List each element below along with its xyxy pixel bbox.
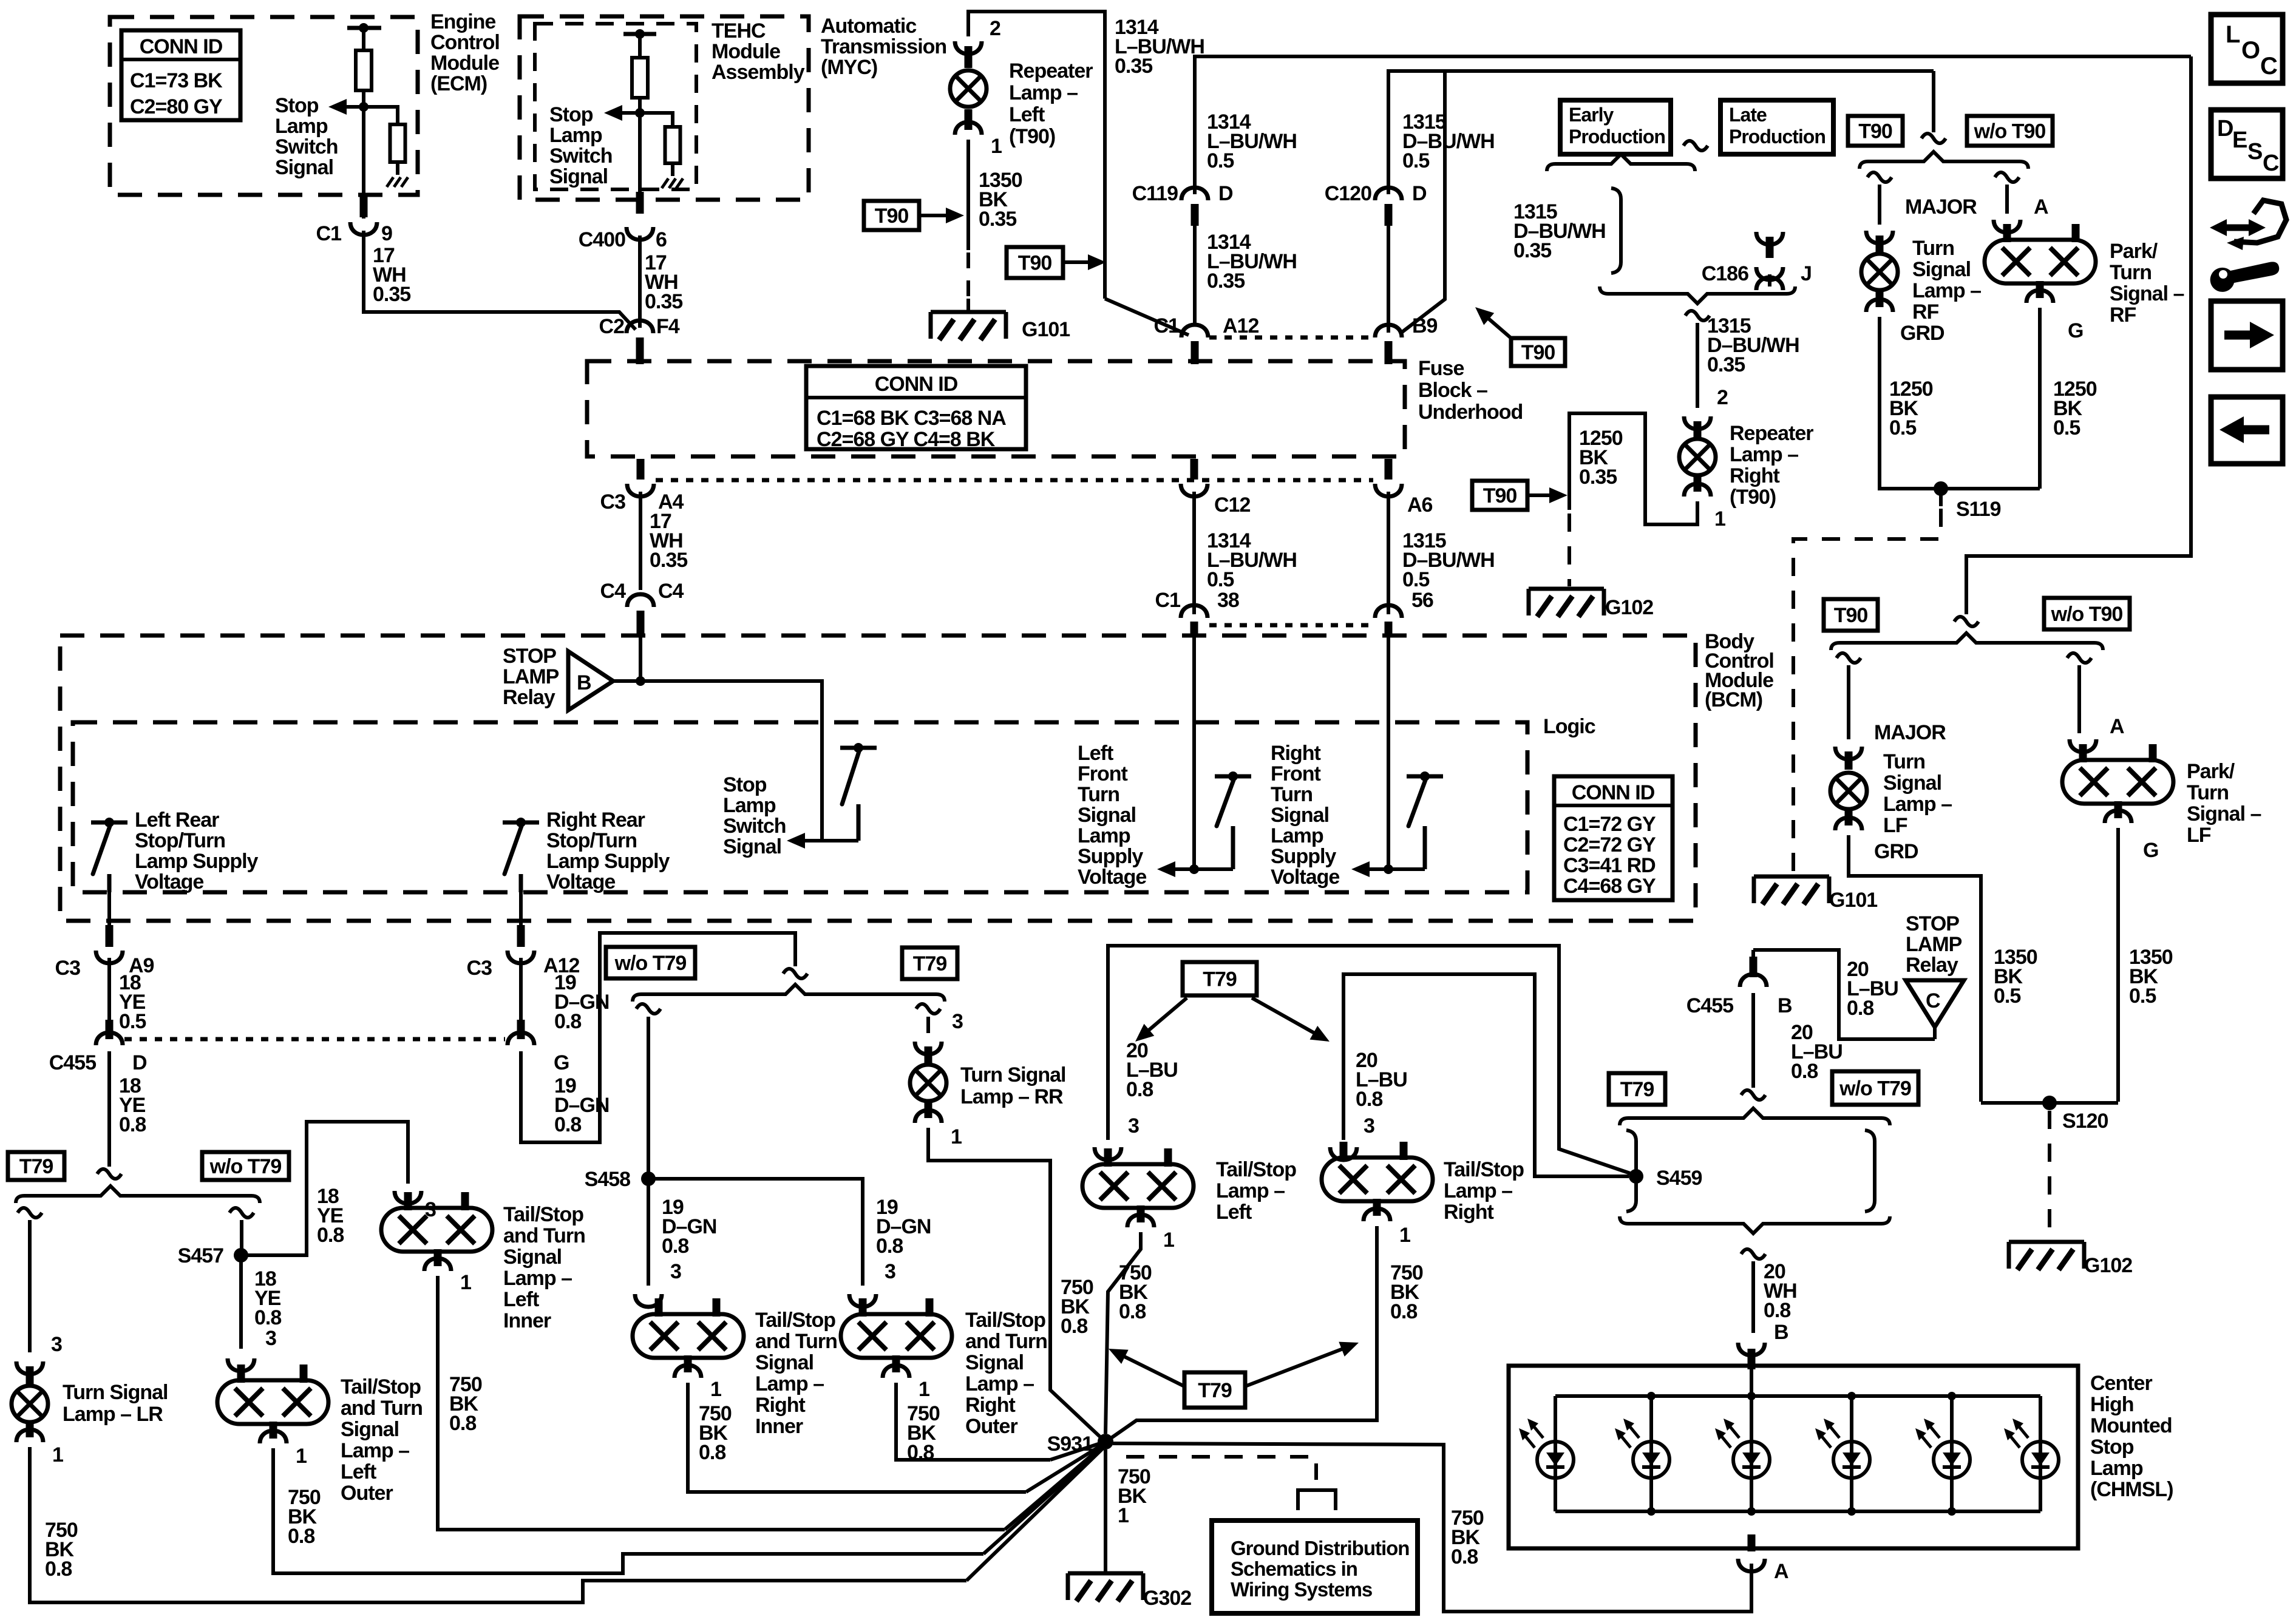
svg-text:C2=80 GY: C2=80 GY — [130, 95, 223, 118]
wire G to w/o T79 loop — [521, 933, 795, 1142]
svg-text:0.8: 0.8 — [1061, 1315, 1087, 1338]
label 18 YE 0.8 (left inner) — [317, 1185, 344, 1247]
svg-text:Lamp Supply: Lamp Supply — [546, 850, 670, 873]
connector arc MAJOR LF — [1835, 747, 1862, 759]
svg-text:Signal: Signal — [1912, 258, 1971, 281]
svg-text:Assembly: Assembly — [712, 61, 805, 84]
label 1 (LR) — [52, 1443, 63, 1466]
svg-text:Production: Production — [1569, 126, 1665, 147]
right arrow box — [2211, 301, 2283, 370]
squiggle w/o T79 loop end — [783, 969, 807, 978]
svg-text:Voltage: Voltage — [135, 870, 203, 893]
svg-text:0.5: 0.5 — [1889, 416, 1916, 439]
connector G stub — [517, 1020, 525, 1039]
squiggle right leg (RR lamp) — [916, 1004, 940, 1014]
svg-text:0.5: 0.5 — [119, 1010, 146, 1033]
svg-text:L: L — [2226, 21, 2240, 48]
wire resistor to node — [362, 90, 365, 219]
left arrow box — [2211, 397, 2283, 464]
svg-text:(T90): (T90) — [1009, 125, 1055, 148]
svg-text:Turn Signal: Turn Signal — [960, 1063, 1065, 1086]
svg-text:0.8: 0.8 — [699, 1441, 725, 1464]
hotlink double arrow icon — [2210, 200, 2286, 250]
svg-text:Switch: Switch — [275, 135, 338, 158]
svg-text:B: B — [1778, 994, 1792, 1017]
svg-text:Tail/Stop: Tail/Stop — [341, 1375, 421, 1398]
svg-text:Voltage: Voltage — [1271, 866, 1339, 889]
wire right front supply — [1387, 634, 1390, 869]
lamp Tail/Stop and Turn Signal Lamp - Left Inner — [381, 1192, 492, 1266]
label 3 (LR) — [51, 1333, 62, 1356]
connector pin 1 arc (repeater left) — [955, 122, 982, 135]
svg-text:Center: Center — [2090, 1372, 2152, 1395]
svg-text:56: 56 — [1411, 589, 1433, 612]
svg-text:T90: T90 — [1834, 604, 1868, 627]
svg-text:Signal: Signal — [1883, 771, 1941, 795]
T79 flag box (tail lamps) — [1183, 962, 1257, 995]
svg-text:Stop/Turn: Stop/Turn — [135, 829, 225, 852]
svg-text:F4: F4 — [656, 315, 680, 338]
dashed option segment — [966, 253, 970, 297]
svg-text:T90: T90 — [1858, 120, 1892, 143]
connector C1 pin 9 stub — [360, 195, 368, 217]
svg-text:Lamp –: Lamp – — [1444, 1179, 1512, 1202]
connector pin3 arc (RR) — [915, 1042, 942, 1054]
wire left rear drop — [107, 892, 111, 947]
svg-text:C1: C1 — [316, 222, 342, 245]
label C3 / A9 — [55, 954, 154, 980]
ECM label — [430, 10, 500, 95]
label Turn Signal Lamp - LF — [1883, 750, 1952, 837]
svg-text:0.35: 0.35 — [650, 549, 687, 572]
svg-text:C1=73 BK: C1=73 BK — [130, 69, 223, 92]
svg-text:C2: C2 — [599, 315, 625, 338]
svg-text:T79: T79 — [913, 952, 947, 975]
svg-text:1: 1 — [52, 1443, 63, 1466]
svg-text:3: 3 — [51, 1333, 62, 1356]
lamp Park/Turn Signal - RF — [1985, 224, 2096, 298]
svg-text:Lamp: Lamp — [1078, 824, 1130, 847]
svg-text:0.8: 0.8 — [1119, 1300, 1146, 1323]
arrow right front supply voltage — [1351, 861, 1388, 877]
connector C400 pin 6 stub — [636, 192, 644, 214]
svg-text:0.8: 0.8 — [662, 1235, 688, 1258]
ground G101 (right) — [1754, 876, 1877, 912]
CHMSL box — [1509, 1366, 2078, 1548]
svg-text:0.8: 0.8 — [876, 1235, 903, 1258]
svg-text:Lamp – RR: Lamp – RR — [960, 1085, 1063, 1108]
label 1350 BK 0.5 (right2) — [2129, 946, 2173, 1008]
svg-text:3: 3 — [1364, 1114, 1374, 1137]
label 1315 D-BU/WH 0.35 (rep right) — [1707, 314, 1799, 376]
ground G102 (right) — [2009, 1242, 2132, 1277]
label 1 (rep right) — [1714, 507, 1725, 531]
label Tail/Stop...Right Inner — [755, 1309, 837, 1438]
svg-text:Stop: Stop — [723, 773, 767, 796]
lamp Tail/Stop Lamp - Right — [1322, 1142, 1433, 1216]
label Tail/Stop Lamp - Left — [1216, 1158, 1296, 1224]
squiggle LF right leg — [2067, 653, 2091, 663]
svg-text:C3: C3 — [55, 957, 81, 980]
svg-text:6: 6 — [656, 228, 667, 251]
svg-text:C: C — [2263, 151, 2279, 176]
svg-text:C3: C3 — [467, 957, 492, 980]
wire 17 WH 0.35 (BCM drop) — [639, 492, 642, 590]
MAJOR LF lower stub — [1845, 811, 1853, 825]
wire to C455 — [107, 958, 111, 1026]
label Park/Turn Signal - RF — [2110, 240, 2184, 327]
label 1 (repeater left) — [991, 135, 1002, 158]
wire relay output — [613, 681, 822, 841]
svg-text:0.8: 0.8 — [554, 1010, 581, 1033]
svg-text:and Turn: and Turn — [341, 1397, 423, 1420]
label MAJOR (LF) — [1874, 721, 1946, 744]
svg-text:Turn: Turn — [1912, 237, 1954, 260]
diagonal into C1/A12 — [1105, 299, 1189, 335]
svg-text:Lamp Supply: Lamp Supply — [135, 850, 259, 873]
TEHC inner dashed box — [535, 24, 696, 189]
svg-text:Signal: Signal — [723, 835, 781, 858]
ground G302 — [1068, 1573, 1191, 1610]
connector pin1 arc (LR) — [16, 1429, 43, 1442]
connector pin3 arc (tail left) — [1095, 1147, 1121, 1160]
wire 1314 to BCM — [1192, 492, 1196, 614]
svg-text:C119: C119 — [1132, 182, 1178, 205]
wire 1315 branch to B9 — [1401, 71, 1445, 333]
CONN ID table (fuse block) — [806, 366, 1026, 451]
splice S931 — [1047, 1432, 1113, 1456]
wire left inner to S931 — [1005, 1443, 1106, 1530]
label A6 — [1407, 493, 1433, 517]
squiggle left leg S458 — [636, 1004, 661, 1014]
svg-text:Lamp –: Lamp – — [1883, 793, 1952, 816]
svg-text:Module: Module — [712, 40, 780, 63]
connector G arc (LF) — [2105, 810, 2131, 823]
label GRD (RF) — [1900, 322, 1944, 345]
connector GRD arc (LF) — [1835, 818, 1862, 830]
svg-text:3: 3 — [265, 1327, 276, 1350]
svg-text:0.8: 0.8 — [1764, 1299, 1790, 1322]
svg-text:0.5: 0.5 — [1207, 149, 1234, 172]
w/o T90 flag box (LF) — [2044, 598, 2130, 629]
svg-text:Right: Right — [755, 1394, 806, 1417]
svg-text:A12: A12 — [1223, 314, 1258, 337]
svg-text:Inner: Inner — [503, 1309, 551, 1332]
svg-text:Tail/Stop: Tail/Stop — [965, 1309, 1045, 1332]
label B9 — [1412, 314, 1438, 337]
label 1 (RR) — [951, 1125, 962, 1148]
svg-text:Right: Right — [1730, 464, 1780, 487]
wire to resistor R-ECM2 — [364, 107, 398, 124]
node TEHC junction — [635, 108, 645, 118]
svg-text:GRD: GRD — [1900, 322, 1944, 345]
wire right rear drop — [519, 892, 523, 947]
svg-text:Voltage: Voltage — [546, 870, 615, 893]
svg-text:3: 3 — [952, 1010, 963, 1033]
RR pin3 stub — [925, 1046, 932, 1063]
connector C2/F4 arc — [627, 320, 653, 333]
svg-text:Signal: Signal — [503, 1246, 562, 1269]
svg-text:C3=41 RD: C3=41 RD — [1563, 854, 1656, 877]
svg-text:B: B — [1774, 1321, 1788, 1344]
svg-text:0.8: 0.8 — [288, 1525, 314, 1548]
svg-text:CONN ID: CONN ID — [140, 35, 223, 58]
svg-text:0.35: 0.35 — [373, 283, 410, 306]
label 750 BK 0.8 (right outer) — [907, 1402, 940, 1464]
svg-text:Signal: Signal — [1271, 804, 1329, 827]
label 20 L-BU 0.8 (relay) — [1847, 958, 1898, 1020]
wire to S458 — [647, 1017, 650, 1175]
wire 1350 BK 0.5 (LF) — [1849, 835, 1981, 1102]
node relay output junction — [636, 676, 645, 686]
svg-text:LAMP: LAMP — [1906, 933, 1962, 956]
svg-text:C3: C3 — [600, 490, 626, 514]
wire 20 WH 0.8 to CHMSL — [1751, 1261, 1755, 1333]
wire to turn signal LR — [28, 1220, 32, 1352]
wire 20 L-BU 0.8 (tail left) — [1108, 946, 1632, 1174]
label 17 WH 0.35 (ECM wire) — [373, 244, 410, 306]
connector B9 arc — [1375, 325, 1402, 337]
lamp Turn Signal Lamp - RR — [910, 1065, 946, 1101]
connector C455/D arc — [96, 1032, 123, 1045]
svg-text:1: 1 — [296, 1445, 307, 1468]
svg-text:Voltage: Voltage — [1078, 866, 1146, 889]
MAJOR RF lower stub — [1876, 291, 1884, 307]
ground G101 — [931, 312, 1070, 341]
arrow left front supply voltage — [1157, 861, 1194, 877]
arrow Stop Lamp Switch Signal (ECM) — [328, 99, 364, 115]
label 3 (RR) — [952, 1010, 963, 1033]
svg-text:0.8: 0.8 — [1451, 1545, 1478, 1568]
wire relay C tip — [1933, 1027, 1937, 1039]
svg-text:Schematics in: Schematics in — [1231, 1558, 1357, 1580]
svg-text:Production: Production — [1729, 126, 1826, 147]
squiggle C455 wire end — [97, 1169, 121, 1179]
label Left Rear Stop/Turn Lamp Supply Voltage — [135, 808, 259, 893]
svg-text:G: G — [554, 1051, 569, 1074]
connector C1/A12 stub — [1191, 341, 1199, 364]
wire R-ECM2 to ground — [396, 162, 399, 175]
LED D4 (CHMSL) — [1815, 1419, 1870, 1478]
squiggle above S459 brace — [1741, 1090, 1765, 1100]
wire to park/turn LF — [2077, 665, 2081, 733]
svg-text:D: D — [2217, 116, 2233, 141]
svg-text:C455: C455 — [1686, 994, 1733, 1017]
svg-text:Lamp –: Lamp – — [1730, 443, 1798, 466]
svg-text:High: High — [2090, 1393, 2134, 1416]
wire top feed — [1932, 71, 1935, 132]
ECM Stop Lamp Switch Signal label — [275, 94, 338, 179]
connector pin3 arc (left inner) — [395, 1191, 421, 1204]
ground (ECM internal) — [387, 177, 408, 187]
svg-text:Lamp –: Lamp – — [1216, 1179, 1285, 1202]
wire 750 BK 0.8 (tail left) — [1106, 1232, 1141, 1434]
svg-text:Lamp: Lamp — [723, 794, 776, 817]
label 750 BK 0.8 (CHMSL) — [1451, 1507, 1484, 1568]
label Tail/Stop...Right Outer — [965, 1309, 1047, 1438]
Early Production box — [1560, 100, 1671, 154]
svg-text:Module: Module — [430, 52, 499, 75]
wire LR to S931 — [966, 1446, 1106, 1581]
connector pin1 arc (rep right) — [1684, 484, 1711, 497]
svg-text:0.5: 0.5 — [1994, 985, 2020, 1008]
svg-text:and Turn: and Turn — [965, 1330, 1047, 1353]
svg-text:Park/: Park/ — [2187, 760, 2235, 783]
svg-text:0.8: 0.8 — [45, 1558, 72, 1581]
squiggle w/o T90 feed — [1954, 617, 1978, 626]
svg-text:0.35: 0.35 — [1707, 353, 1745, 376]
svg-text:Engine: Engine — [430, 10, 495, 33]
wire 750 BK 0.8 (right outer) — [896, 1383, 1050, 1460]
svg-text:3: 3 — [1128, 1114, 1139, 1137]
wire S458 to right outer — [648, 1179, 863, 1286]
connector pin1 arc (tail left) — [1127, 1215, 1154, 1227]
label 1314 L-BU/WH 0.5 (drop) — [1207, 529, 1297, 591]
BCM outer dashed box — [60, 636, 1696, 921]
svg-text:E: E — [2232, 127, 2247, 153]
lamp Repeater Lamp - Right — [1679, 439, 1716, 475]
svg-text:D: D — [1218, 182, 1233, 205]
label 1 (tail left) — [1163, 1229, 1174, 1252]
RR pin1 stub — [925, 1102, 932, 1118]
svg-text:Lamp: Lamp — [275, 115, 328, 138]
DESC box — [2211, 110, 2283, 178]
svg-text:Turn: Turn — [1078, 783, 1119, 806]
svg-text:Lamp –: Lamp – — [503, 1267, 572, 1290]
svg-text:Turn: Turn — [1271, 783, 1313, 806]
svg-text:0.8: 0.8 — [317, 1224, 344, 1247]
dotted connector row C3-C12-A6 — [656, 478, 1373, 483]
brace production merge — [1600, 286, 1795, 303]
svg-text:B: B — [577, 671, 591, 694]
svg-text:0.5: 0.5 — [1402, 568, 1429, 591]
label 18 YE 0.8 / 3 (left outer) — [254, 1267, 281, 1350]
svg-text:0.5: 0.5 — [1207, 568, 1234, 591]
svg-text:Left: Left — [503, 1288, 539, 1311]
label 19 D-GN 0.8 / 3 (right inner) — [662, 1196, 716, 1283]
svg-text:Stop/Turn: Stop/Turn — [546, 829, 637, 852]
svg-text:MAJOR: MAJOR — [1874, 721, 1946, 744]
rep right pin1 stub — [1694, 477, 1702, 492]
connector C4/C4 arc — [627, 594, 654, 607]
label 750 BK 0.8 (right inner) — [699, 1402, 732, 1464]
connector pin3 arc (tail right) — [1330, 1147, 1357, 1160]
T90 flag box (RF) — [1848, 116, 1903, 146]
svg-text:T79: T79 — [1203, 968, 1237, 991]
wire 750 BK 1 to G302 — [1104, 1449, 1107, 1572]
wire S119 stub — [1939, 489, 1943, 506]
wire 1350 BK 0.35 (repeater left) — [966, 140, 970, 250]
wire 20 L-BU 0.8 to brace — [1751, 993, 1755, 1088]
svg-text:w/o T90: w/o T90 — [1974, 120, 2046, 143]
squiggle below S459 brace — [1741, 1249, 1765, 1259]
wire 1250 BK 0.5 (RF right) — [2038, 308, 2042, 489]
wire rf switch join — [1388, 867, 1425, 871]
svg-text:Left: Left — [1009, 103, 1045, 126]
svg-text:C12: C12 — [1214, 493, 1250, 517]
label C400 / 6 — [579, 228, 667, 251]
svg-text:CONN ID: CONN ID — [1572, 781, 1655, 804]
svg-text:Left: Left — [1078, 742, 1113, 765]
svg-text:1: 1 — [460, 1271, 471, 1294]
label Left Front Turn Signal Lamp Supply Voltage — [1078, 742, 1146, 889]
svg-text:LAMP: LAMP — [503, 665, 559, 688]
wire repeater-left top run — [968, 12, 1105, 299]
svg-text:MAJOR: MAJOR — [1905, 195, 1977, 219]
lamp Tail/Stop Lamp - Left — [1082, 1148, 1194, 1222]
svg-text:Lamp –: Lamp – — [341, 1439, 409, 1462]
svg-text:Lamp –: Lamp – — [965, 1372, 1034, 1395]
svg-text:Left Rear: Left Rear — [135, 808, 219, 832]
label 1250 BK 0.35 — [1579, 427, 1623, 489]
svg-text:Right: Right — [965, 1394, 1016, 1417]
svg-text:Block –: Block – — [1418, 379, 1487, 402]
squiggle LF left leg — [1836, 653, 1861, 663]
svg-text:w/o T79: w/o T79 — [209, 1155, 282, 1178]
connector C119 stub — [1191, 204, 1199, 226]
connector C12 arc — [1181, 484, 1207, 497]
connector C2/F4 stub into fuse block — [636, 337, 644, 364]
connector pin3 arc (right inner) — [635, 1294, 662, 1307]
svg-text:0.8: 0.8 — [907, 1441, 934, 1464]
squiggle left leg (LR lamp) — [18, 1208, 42, 1218]
wire to G connector — [519, 958, 523, 1026]
svg-text:C1=72 GY: C1=72 GY — [1563, 813, 1656, 836]
switch left rear (logic) — [91, 818, 127, 892]
label 1350 BK 0.5 (left) — [1994, 946, 2037, 1008]
label G (RF) — [2068, 319, 2083, 342]
wire C4 into relay node — [639, 634, 642, 681]
wire 17 WH 0.35 from ECM — [364, 231, 636, 330]
wire C186 tail — [1768, 274, 1771, 286]
wire S457 down to left outer — [239, 1259, 243, 1349]
svg-text:1: 1 — [951, 1125, 962, 1148]
wrench icon — [2210, 262, 2280, 292]
MAJOR RF stub — [1876, 236, 1884, 253]
svg-text:Park/: Park/ — [2110, 240, 2158, 263]
svg-text:C1=68 BK C3=68 NA: C1=68 BK C3=68 NA — [817, 407, 1006, 430]
wire 750 BK 0.8 (LR) — [30, 1447, 966, 1602]
label 1315 D-BU/WH 0.5 (drop) — [1402, 529, 1495, 591]
label 1 (tail right) — [1399, 1224, 1410, 1247]
svg-text:0.8: 0.8 — [254, 1306, 281, 1329]
connector C1/A12 arc — [1181, 325, 1208, 337]
wire to RR lamp — [926, 1017, 930, 1033]
svg-text:9: 9 — [381, 222, 392, 245]
CONN ID table (ECM) — [121, 30, 240, 120]
brace production options — [1547, 154, 1695, 171]
wire 750 BK 0.8 (right inner) — [688, 1383, 1026, 1492]
wire switch stub join — [822, 839, 858, 842]
bracket leg S459 right — [1865, 1130, 1875, 1212]
w/o T79 flag box (middle) — [606, 947, 695, 978]
resistor R-ECM2 — [390, 124, 406, 162]
svg-text:0.35: 0.35 — [1579, 466, 1617, 489]
label Repeater Lamp - Left (T90) — [1009, 59, 1093, 148]
label Tail/Stop Lamp - Right — [1444, 1158, 1524, 1224]
connector C120 D arc — [1375, 188, 1402, 200]
squiggle right leg (S457) — [229, 1208, 254, 1218]
svg-text:1: 1 — [1118, 1504, 1129, 1527]
connector C3/A12 arc (right rear) — [508, 951, 534, 963]
label 2 (rep right) — [1717, 386, 1728, 409]
wire left front supply — [1192, 634, 1196, 869]
svg-text:D: D — [132, 1051, 147, 1074]
label C119 / D — [1132, 182, 1233, 205]
svg-text:A6: A6 — [1407, 493, 1433, 517]
switch right front turn (logic) — [1407, 771, 1443, 869]
svg-text:G102: G102 — [1605, 596, 1653, 619]
